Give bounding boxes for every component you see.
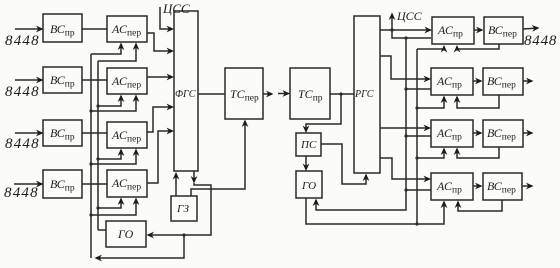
block TSper [225, 68, 263, 119]
junction feedback bottom [182, 233, 185, 236]
wire bottom return to bus1 [96, 235, 184, 258]
wire ASper3-FGS [147, 107, 173, 132]
junction vertical1 row4 [404, 188, 407, 191]
wire timing bus2 left [97, 61, 99, 230]
junction bus1 row3 [89, 162, 92, 165]
wire ASpr2-VSper2 [473, 80, 481, 82]
wire vertical1 to ASpr3 [406, 135, 431, 137]
wire vertical1 to ASpr4 [406, 189, 431, 191]
svg-text:8448: 8448 [524, 33, 557, 49]
block ASpr4 [431, 173, 473, 200]
wire CSS-right arrow up [391, 14, 393, 30]
wire VSper1 output arrow [523, 28, 538, 29]
wire TSpr-RGS [330, 93, 354, 95]
wire GZ-TSper [191, 121, 245, 196]
junction bus1 row2 [89, 109, 92, 112]
wire bus1 feed ASper4 [91, 199, 136, 215]
wire RGS-ASpr4 [380, 158, 430, 179]
wire VSper4 feedback [458, 200, 502, 211]
wire ASper4-FGS [147, 131, 173, 183]
block VSper3 [483, 120, 523, 147]
junction vertical1 row3 [404, 134, 407, 137]
junction busB row3 [415, 156, 418, 159]
wire bus2 feed ASper2 [98, 96, 121, 106]
svg-text:8448: 8448 [5, 84, 40, 100]
svg-text:ГО: ГО [301, 180, 316, 192]
wire ASpr3-VSper3 [473, 132, 481, 134]
block ASper4 [107, 170, 147, 197]
block VSpr4 [43, 170, 82, 198]
block VSper1 [484, 17, 523, 44]
wire ASpr4-VSper4 [473, 185, 481, 187]
wire VSper3 output arrow [523, 132, 532, 134]
wire timing busB right [416, 49, 418, 224]
block GO-right [296, 171, 322, 198]
wire vertical1 to ASpr2 [406, 88, 431, 90]
wire input arrow row4 [14, 183, 42, 185]
svg-text:ПС: ПС [300, 139, 317, 151]
wire RGS-ASpr3 [380, 127, 430, 129]
wire input arrow row1 [15, 28, 42, 30]
svg-text:ГО: ГО [117, 227, 134, 241]
wire FGS to GO-left [148, 183, 211, 235]
svg-text:8448: 8448 [4, 185, 39, 201]
wire VSper3 feedback [457, 147, 499, 158]
block VSper4 [483, 173, 522, 200]
block ASper3 [107, 122, 147, 148]
block VSpr2 [43, 67, 82, 93]
block TSpr [290, 68, 330, 119]
wire busB feed ASpr2 [417, 97, 444, 108]
wire GO-left to bus2 [98, 229, 106, 231]
wire VSper4 output arrow [522, 185, 532, 187]
block ASpr1 [432, 17, 474, 44]
junction RGS row1 [390, 28, 393, 31]
wire CSS-left into FGS [160, 7, 173, 29]
block PS [296, 133, 321, 156]
wire VSpr1-ASper1 [82, 28, 107, 30]
wire FGS down stub arrow [193, 171, 195, 182]
wire RGS-ASpr1 [380, 29, 431, 31]
wire timing bus1 left [90, 54, 92, 258]
svg-text:РГС: РГС [354, 89, 374, 100]
wire ASper1-FGS [147, 33, 173, 51]
block ASper2 [107, 68, 147, 94]
wire bus2 feed ASper3 [98, 150, 121, 159]
junction vertical1 row2 [404, 87, 407, 90]
wire VSper2 feedback [457, 95, 499, 108]
wire bus2 feed ASper4 [98, 199, 121, 208]
wire VSpr3-ASper3 [82, 132, 107, 134]
svg-text:8448: 8448 [5, 33, 40, 49]
wire VSpr4-ASper4 [82, 183, 107, 185]
wire PS to RGS [321, 144, 366, 184]
wire busB feed ASpr3 [417, 149, 444, 158]
wire bus1 feed ASper1 [91, 44, 121, 54]
block ASper1 [107, 16, 147, 42]
svg-text:ЦСС: ЦСС [162, 1, 190, 16]
block GZ [171, 196, 197, 221]
wire PS to GO-right [305, 156, 307, 170]
wire bus1 feed ASper2 [91, 96, 136, 111]
wire bus2 feed ASper1 [98, 44, 136, 61]
wire side bus top [392, 30, 431, 38]
wire GO-right output to ASpr4 [306, 198, 444, 224]
block RGS [354, 16, 380, 173]
wire bus1 feed ASper3 [91, 150, 136, 164]
svg-text:8448: 8448 [5, 136, 40, 152]
wire VSpr2-ASper2 [82, 79, 107, 81]
junction busB row2 [415, 106, 418, 109]
block VSper2 [483, 68, 523, 95]
wire ASpr1-VSper1 [474, 29, 482, 31]
junction bus1 row4 [89, 213, 92, 216]
wire GZ-FGS arrow up [175, 174, 177, 197]
block VSpr1 [43, 14, 82, 42]
wire ASper2-FGS [147, 76, 173, 78]
wire input arrow row2 [15, 79, 42, 81]
wire VSper2 output arrow [523, 80, 532, 82]
wire RGS-ASpr2 [380, 56, 430, 79]
wire busB feed ASpr1 [417, 47, 444, 50]
junction GO bus right [415, 222, 418, 225]
wire side bus vertical1 [316, 38, 406, 210]
wire TSper output arrow [263, 93, 272, 95]
wire input arrow row3 [15, 132, 42, 134]
block GO-left [106, 221, 146, 247]
block VSpr3 [43, 120, 82, 146]
svg-text:ФГС: ФГС [175, 89, 196, 100]
junction bus2 row3 [96, 157, 99, 160]
wire VSper1 feedback [457, 44, 499, 49]
wire TSpr input arrow [278, 93, 289, 95]
block ASpr3 [431, 120, 473, 147]
junction vertical1 top [404, 36, 407, 39]
block ASpr2 [431, 68, 473, 95]
wire TSpr to PS [306, 94, 341, 132]
junction TSpr-RGS [339, 92, 342, 95]
wire FGS-TSper [198, 93, 225, 95]
junction bus2 row2 [96, 104, 99, 107]
junction bus2 row4 [96, 206, 99, 209]
svg-text:ГЗ: ГЗ [176, 203, 189, 215]
block FGS [174, 11, 198, 171]
svg-text:ЦСС: ЦСС [396, 9, 423, 23]
